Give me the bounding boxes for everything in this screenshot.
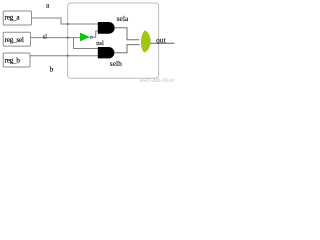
and-gate selb (black) <box>98 47 115 58</box>
port tick a on module edge <box>67 23 69 25</box>
wire sela output to or-gate upper input <box>115 28 140 40</box>
wire out: or-gate output to edge <box>150 42 174 44</box>
svg-text:sl: sl <box>43 35 47 41</box>
or-gate (green lens) <box>141 30 151 52</box>
background <box>0 0 176 85</box>
register reg_a <box>3 11 31 25</box>
wire a: reg_a to sela top input <box>32 18 99 24</box>
svg-text:reg_a: reg_a <box>5 14 21 22</box>
wire sel: reg_sel to inverter input <box>31 37 81 39</box>
and-gate sela (black) <box>98 22 115 34</box>
port tick sel on module edge <box>67 37 69 39</box>
inverter nsl (green triangle) <box>80 33 90 42</box>
module boundary box <box>68 3 159 78</box>
svg-text:b: b <box>50 64 54 73</box>
svg-text:reg_sel: reg_sel <box>5 36 24 44</box>
svg-text:nsl: nsl <box>96 40 104 47</box>
inverter bubble <box>90 36 92 38</box>
wire b: reg_b to selb bottom input <box>30 55 98 57</box>
register reg_sel <box>3 32 30 46</box>
svg-text:reg_b: reg_b <box>5 57 21 65</box>
svg-text:uw2+d4h+f5c0: uw2+d4h+f5c0 <box>140 79 174 84</box>
svg-text:sela: sela <box>117 14 129 23</box>
wire sel branch down to selb top input <box>74 38 99 49</box>
port tick b on module edge <box>67 55 69 57</box>
wire nsl output to sela bottom input <box>93 31 98 37</box>
wire selb output to or-gate lower input <box>115 45 140 53</box>
register reg_b <box>3 53 30 67</box>
port tick out on module edge <box>158 42 160 44</box>
svg-text:selb: selb <box>110 59 122 68</box>
